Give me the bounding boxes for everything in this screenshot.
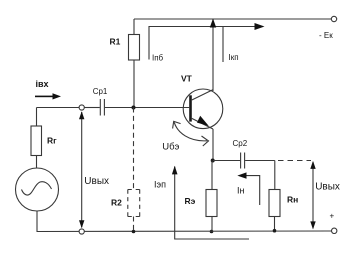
wire node to cap Cp1 — [84, 107, 100, 109]
terminal -Ek — [331, 16, 336, 21]
transistor VT emitter diagonal — [192, 118, 213, 129]
svg-text:Iн: Iн — [237, 186, 245, 196]
resistor Re — [206, 190, 217, 217]
current loop Iep lower line — [175, 167, 249, 240]
svg-text:Rг: Rг — [47, 136, 57, 146]
arrowhead Uvyh-right down — [310, 221, 315, 229]
svg-text:+: + — [330, 212, 335, 221]
tick Ikp — [222, 27, 224, 63]
wire Rg top leg — [36, 108, 38, 127]
wire Rn top leg — [274, 161, 276, 190]
arrowhead collector up — [210, 19, 216, 28]
node Re bottom junction — [210, 230, 214, 234]
svg-text:Iэп: Iэп — [154, 179, 166, 189]
arrowhead Ube arc right open — [202, 136, 209, 146]
capacitor Cp1 — [99, 99, 101, 116]
node Rn bottom junction — [273, 229, 277, 233]
wire Re bottom leg — [211, 217, 213, 232]
resistor R2 dashed — [128, 190, 140, 217]
svg-text:R2: R2 — [111, 198, 122, 208]
svg-text:VT: VT — [181, 73, 193, 83]
svg-text:Uвых: Uвых — [315, 182, 340, 193]
svg-text:Ср2: Ср2 — [233, 139, 248, 148]
svg-text:Rн: Rн — [287, 195, 298, 205]
wire Rg to source — [36, 156, 38, 169]
voltage arc Ube — [174, 122, 207, 141]
arrowhead Ube arc left-up open — [173, 121, 181, 128]
wire source bottom leg — [36, 211, 38, 232]
svg-text:Iкп: Iкп — [229, 53, 239, 62]
svg-text:iвх: iвх — [36, 79, 49, 89]
resistor Rn — [269, 190, 280, 217]
wire emitter vertical — [212, 129, 214, 161]
wire Rn bottom leg — [274, 217, 276, 231]
node emitter junction — [211, 159, 215, 163]
wire Re top leg — [211, 161, 213, 190]
node bottom-left terminal circle — [79, 229, 84, 234]
svg-text:Iпб: Iпб — [152, 54, 164, 63]
wire top supply rail — [134, 18, 331, 20]
arrowhead current path right — [255, 23, 265, 30]
dashed wire R2 bottom leg — [133, 217, 135, 232]
svg-text:Uвых: Uвых — [84, 176, 109, 187]
arrowhead Uvyh-right up — [310, 161, 315, 169]
node R2 bottom junction — [132, 230, 136, 234]
wire bottom rail — [37, 230, 332, 233]
resistor R1 — [129, 35, 140, 61]
arrowhead Iep up — [172, 166, 178, 175]
wire base — [105, 107, 189, 109]
svg-text:R1: R1 — [110, 36, 121, 46]
transistor VT circle — [183, 89, 223, 129]
svg-text:- Ек: - Ек — [319, 31, 333, 40]
wire collector vertical — [212, 19, 214, 91]
terminal + output — [332, 228, 337, 233]
voltage arrow Uvyh right line — [312, 162, 314, 228]
svg-text:Uбэ: Uбэ — [162, 141, 179, 152]
svg-text:Rэ: Rэ — [185, 196, 196, 206]
svg-text:Ср1: Ср1 — [93, 87, 108, 96]
source AC generator circle — [16, 168, 59, 211]
dashed wire base to R2 — [133, 108, 135, 190]
wire Cp2 to Rn — [245, 160, 275, 162]
wire input top — [37, 107, 80, 109]
arrowhead Uvyh-left up — [79, 111, 84, 119]
arrowhead ivx — [53, 93, 62, 99]
wire emitter node to Cp2 — [213, 160, 240, 162]
transistor VT base bar — [189, 95, 192, 121]
current arrow In L-shape — [240, 176, 260, 205]
node input terminal circle — [79, 105, 84, 110]
wire R1 top leg — [133, 19, 135, 35]
current path arrow Ipb->Ikp — [149, 27, 256, 60]
node base/R1 junction — [132, 106, 136, 110]
arrowhead emitter — [197, 116, 209, 126]
resistor Rg — [31, 126, 42, 156]
wire ivx arrow shaft — [35, 96, 54, 98]
wire R1 bottom leg — [133, 60, 135, 108]
arrowhead In left — [237, 172, 246, 178]
source sine symbol — [22, 182, 52, 195]
arrowhead Uvyh-left down — [79, 220, 84, 228]
capacitor Cp2 — [240, 153, 242, 169]
dashed wire output — [278, 160, 311, 162]
transistor VT collector diagonal — [192, 90, 213, 100]
voltage arrow Uvyh left line — [81, 112, 83, 227]
